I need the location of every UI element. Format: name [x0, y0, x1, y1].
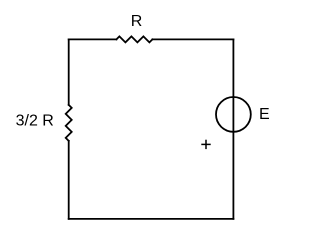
- wire bottom: [69, 218, 234, 220]
- wire top-right segment: [152, 38, 233, 40]
- wire right (through source): [232, 39, 234, 219]
- wire left upper segment: [68, 39, 70, 105]
- wire top-left segment: [69, 38, 117, 40]
- svg-text:3/2 R: 3/2 R: [16, 113, 54, 130]
- resistor R1 (R) zigzag: [116, 36, 152, 42]
- svg-text:E: E: [259, 106, 270, 123]
- polarity mark + of source E: [201, 140, 210, 149]
- svg-text:R: R: [131, 13, 143, 30]
- resistor R2 (3/2 R) zigzag: [66, 105, 72, 141]
- wire left lower segment: [68, 141, 70, 219]
- voltage source E (circle): [216, 97, 251, 132]
